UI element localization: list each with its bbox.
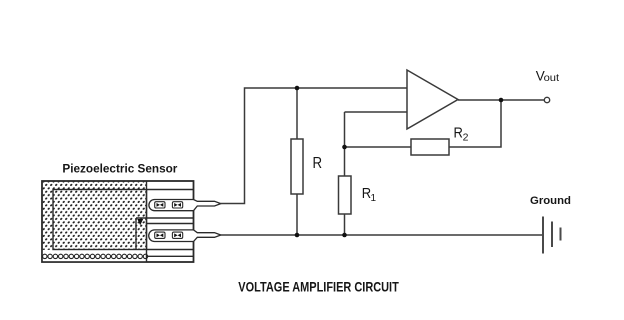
svg-text:VOLTAGE AMPLIFIER CIRCUIT: VOLTAGE AMPLIFIER CIRCUIT [238,280,399,295]
svg-text:Piezoelectric Sensor: Piezoelectric Sensor [62,162,177,176]
svg-text:1: 1 [371,193,377,204]
svg-text:R: R [313,155,323,172]
svg-text:out: out [544,73,560,84]
svg-text:Ground: Ground [530,195,571,207]
svg-text:R: R [454,126,463,142]
svg-text:2: 2 [463,131,469,143]
